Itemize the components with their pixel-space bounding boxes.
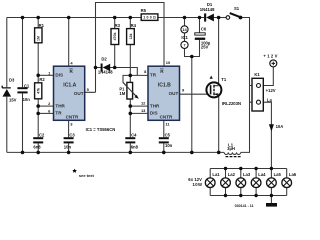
IC1.B timer block — [148, 66, 180, 120]
wire pin5 OUT up and top bypass to pin10 — [85, 3, 164, 93]
svg-text:3µH: 3µH — [227, 146, 235, 151]
resistor R1 — [35, 23, 45, 43]
svg-text:C2: C2 — [39, 132, 45, 137]
svg-text:La5: La5 — [274, 172, 282, 177]
svg-text:1M: 1M — [37, 36, 41, 41]
svg-text:10W: 10W — [193, 182, 202, 187]
diode D2 1N4148 — [98, 56, 113, 74]
lamp La4 — [251, 172, 266, 188]
wire lamp bottom rail — [210, 195, 287, 197]
IC1 supply pin 7 — [181, 41, 188, 48]
svg-text:470k: 470k — [113, 33, 117, 41]
svg-text:10: 10 — [166, 60, 171, 65]
wire IC1 supply pins 14 and 7 — [185, 18, 200, 57]
potentiometer P1 — [119, 82, 138, 99]
wire ground drop from pin7/C6 — [191, 57, 193, 153]
wire C1 vertical — [22, 18, 24, 153]
inductor L1 — [224, 142, 240, 156]
resistor R5 — [141, 8, 158, 20]
svg-text:DIS: DIS — [55, 73, 63, 78]
svg-text:OUT: OUT — [169, 91, 179, 96]
svg-text:La: La — [267, 98, 273, 103]
MOSFET T1 IRL2203N — [206, 76, 241, 106]
svg-text:D3: D3 — [9, 77, 15, 82]
svg-text:1N4148: 1N4148 — [200, 7, 215, 12]
wire D2 net to pin8 — [96, 68, 149, 76]
svg-text:25V: 25V — [201, 45, 209, 50]
svg-text:TR: TR — [150, 73, 157, 78]
current arrow 10A — [269, 124, 283, 132]
svg-text:IC1.A: IC1.A — [63, 83, 76, 89]
see text note — [72, 169, 77, 173]
svg-text:12k: 12k — [129, 34, 133, 40]
svg-text:10n: 10n — [23, 97, 31, 102]
svg-text:IC1.B: IC1.B — [158, 83, 171, 89]
IC1.A pin numbers — [48, 61, 90, 127]
capacitor C2 — [33, 132, 45, 149]
svg-text:THR: THR — [150, 103, 160, 108]
wire R4 P1 C4 vertical chain — [129, 18, 131, 153]
resistor R2 — [35, 77, 46, 99]
svg-text:R5: R5 — [141, 8, 147, 13]
capacitor C4 — [125, 132, 138, 149]
capacitor C3 — [64, 132, 76, 149]
IC1.B pin numbers — [141, 60, 185, 126]
svg-text:IC1: IC1 — [181, 35, 188, 40]
svg-text:La1: La1 — [212, 172, 220, 177]
wire pin6 TR — [38, 112, 53, 114]
+12V terminal — [263, 54, 277, 67]
wire R1 R2 C2 vertical chain — [37, 18, 39, 153]
IC1 supply pin 14 — [181, 26, 188, 33]
svg-text:La4: La4 — [258, 172, 266, 177]
wire +12V feed to relay — [260, 67, 273, 86]
svg-text:6n8: 6n8 — [131, 144, 139, 149]
wire top supply rail — [7, 17, 205, 19]
svg-text:CNTR: CNTR — [66, 114, 79, 119]
ground chassis bar — [266, 203, 277, 207]
svg-text:47k: 47k — [37, 88, 41, 94]
svg-text:OUT: OUT — [74, 91, 84, 96]
wire R3 vertical — [114, 18, 116, 68]
wire ground stub — [270, 196, 272, 204]
svg-text:T1: T1 — [221, 77, 227, 82]
svg-text:IC1 = TS556CN: IC1 = TS556CN — [86, 127, 116, 132]
resistor R4 — [127, 23, 137, 45]
IC1.A timer block — [54, 66, 85, 120]
wire pin4 reset — [68, 18, 70, 67]
svg-text:La2: La2 — [228, 172, 236, 177]
wire pin11 CNTR to C5 — [163, 120, 165, 152]
svg-text:K1: K1 — [254, 72, 260, 77]
wire pin13 DIS — [130, 112, 148, 114]
wire La feed to lamps — [260, 102, 271, 168]
svg-text:1N4148: 1N4148 — [98, 69, 113, 74]
wire S1 to relay common, down right side — [241, 18, 250, 153]
wire drain vertical — [215, 18, 219, 86]
wire pin1 DIS — [38, 74, 53, 76]
svg-text:C4: C4 — [131, 132, 137, 137]
wire pin3 CNTR to C3 — [68, 120, 70, 152]
svg-text:TR: TR — [55, 111, 62, 116]
svg-text:10A: 10A — [276, 124, 284, 129]
svg-text:R1: R1 — [39, 23, 45, 28]
svg-text:IRL2203N: IRL2203N — [222, 101, 241, 106]
svg-text:D2: D2 — [101, 56, 107, 61]
svg-text:R3: R3 — [115, 23, 121, 28]
svg-text:CNTR: CNTR — [160, 114, 173, 119]
svg-text:DIS: DIS — [150, 111, 158, 116]
electrolytic capacitor C6 — [195, 26, 211, 49]
capacitor C1 — [17, 83, 30, 102]
diode D1 1N4148 — [200, 2, 215, 22]
wire source vertical — [215, 94, 219, 152]
svg-text:see text: see text — [79, 173, 95, 178]
svg-text:R4: R4 — [131, 23, 137, 28]
svg-text:C1: C1 — [24, 83, 30, 88]
svg-text:C3: C3 — [69, 132, 75, 137]
lamp La3 — [236, 172, 251, 188]
relay K1 — [252, 72, 263, 111]
svg-text:030141 - 11: 030141 - 11 — [235, 204, 254, 208]
svg-text:12: 12 — [141, 101, 146, 106]
lamp La6 — [282, 172, 297, 188]
wire rail segment D1 to S1 — [214, 17, 227, 19]
svg-text:+12V: +12V — [263, 54, 277, 59]
svg-text:10n: 10n — [64, 144, 72, 149]
capacitor C5 — [159, 132, 173, 148]
svg-text:10n: 10n — [165, 143, 173, 148]
lamp La2 — [221, 172, 236, 188]
wire pin2 THR — [38, 105, 53, 107]
wire relay contact stubs — [250, 86, 257, 103]
svg-text:THR: THR — [55, 103, 65, 108]
svg-text:100Ω: 100Ω — [143, 16, 156, 20]
svg-text:15V: 15V — [9, 98, 17, 103]
svg-text:S1: S1 — [234, 6, 240, 11]
svg-text:13: 13 — [141, 108, 146, 113]
svg-text:C6: C6 — [201, 26, 207, 31]
wire lamp top rail — [210, 168, 287, 170]
switch S1 — [226, 6, 241, 19]
wire P1 wiper link — [123, 75, 136, 96]
zener diode D3 — [2, 77, 16, 102]
wire lamp stubs — [210, 169, 287, 196]
svg-text:La6: La6 — [289, 172, 297, 177]
svg-text:R2: R2 — [39, 77, 45, 82]
svg-text:14: 14 — [182, 27, 187, 32]
svg-text:La3: La3 — [243, 172, 251, 177]
svg-text:+12V: +12V — [266, 88, 276, 93]
wire pin12 THR — [130, 105, 148, 107]
svg-text:6n8: 6n8 — [33, 144, 41, 149]
resistor R3 — [111, 23, 121, 45]
wire pin9 OUT to gate — [180, 93, 210, 95]
svg-text:C5: C5 — [165, 132, 171, 137]
lamp La5 — [267, 172, 282, 188]
lamp La1 — [205, 172, 220, 188]
wire left vertical (D3 branch) — [6, 18, 8, 153]
wire bottom ground rail — [7, 151, 224, 153]
svg-text:1M: 1M — [119, 91, 125, 96]
